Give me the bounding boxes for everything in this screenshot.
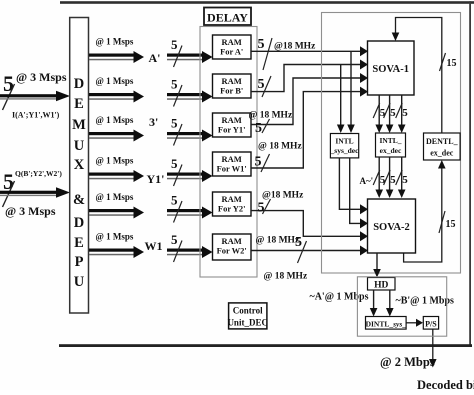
svg-text:Decoded bits: Decoded bits: [417, 378, 474, 390]
block INTL_ex_dec: [376, 133, 406, 157]
SOVA region container box: [322, 13, 461, 274]
bus arrow into RAM row 4: [167, 173, 203, 176]
svg-text:X: X: [74, 157, 85, 173]
wire feedback DEINTL_ex_dec to SOVA-1 top: [396, 18, 442, 134]
svg-text:3': 3': [149, 115, 158, 129]
svg-text:M: M: [72, 117, 86, 133]
bus slash (row 1): [174, 46, 183, 68]
bus arrow into RAM row 5: [167, 209, 203, 212]
svg-text:15: 15: [446, 219, 456, 230]
svg-text:Q(B';Y2',W2'): Q(B';Y2',W2'): [15, 169, 62, 178]
svg-text:5: 5: [380, 107, 386, 119]
bus arrow into RAM row 1: [167, 54, 203, 57]
output stage container box: [357, 277, 446, 336]
wire INTL_ex_dec output 1 to SOVA-2: [378, 157, 380, 192]
wire INTL_ex_dec output 2 to SOVA-2: [389, 157, 391, 192]
wire drop line2 to INTL_sys_dec: [340, 65, 342, 127]
svg-text:5: 5: [171, 116, 178, 131]
bus arrow into RAM row 3: [167, 132, 203, 135]
bus width 15 slash (riser): [439, 211, 445, 233]
svg-text:5: 5: [402, 174, 408, 186]
demux output arrow row 1: [89, 54, 135, 57]
svg-text:INTL: INTL: [335, 137, 353, 146]
svg-text:U: U: [74, 138, 85, 154]
svg-text:DENTL_: DENTL_: [426, 137, 459, 146]
svg-text:D: D: [74, 215, 84, 231]
figure bottom border: [59, 344, 472, 347]
RAM block 1 (For A'): [213, 35, 252, 59]
svg-text:@ 1 Msps: @ 1 Msps: [96, 37, 134, 47]
wire SOVA-2 to HD: [376, 253, 378, 271]
svg-text:5: 5: [258, 77, 265, 92]
block DEMUX & DEPU: [70, 18, 89, 314]
svg-text:5: 5: [171, 193, 178, 208]
demux output arrow row 5: [89, 209, 135, 212]
wire RAM Y1' to SOVA-1 in3: [251, 78, 362, 125]
svg-text:Y1': Y1': [147, 172, 165, 186]
wire RAM B' to SOVA-1 in2: [251, 65, 362, 92]
svg-text:W1: W1: [145, 239, 163, 253]
wire HD to DEINTL_sys (right): [389, 290, 391, 311]
svg-text:@ 1 Msps: @ 1 Msps: [96, 192, 134, 202]
svg-text:RAM: RAM: [222, 76, 242, 86]
bus width 5 slash (SOVA-1 out 3): [396, 103, 403, 118]
bus slash (row 6): [174, 241, 183, 263]
svg-text:For W2': For W2': [217, 246, 247, 256]
svg-text:P/S: P/S: [425, 319, 437, 328]
bus slash (row 2): [174, 85, 183, 107]
wire DEINTL_sys to P/S: [406, 322, 416, 324]
bus width 5 slash (INTL_ex out 3): [396, 170, 403, 185]
RAM block 2 (For B'): [213, 74, 252, 98]
bus width 5 slash (INTL_ex out 2): [384, 170, 391, 185]
input arrow I to DEMUX: [0, 94, 57, 97]
svg-text:~B'@ 1 Mbps: ~B'@ 1 Mbps: [396, 296, 455, 307]
svg-text:_sys_dec: _sys_dec: [330, 146, 360, 155]
input bus I slash: [3, 84, 15, 110]
svg-text:E: E: [74, 235, 84, 251]
block DEINTL_ex_dec: [424, 133, 461, 160]
svg-text:For A': For A': [220, 47, 243, 57]
wire RAM Y2' to SOVA-2 in3: [251, 211, 362, 237]
svg-text:HD: HD: [374, 281, 388, 291]
svg-text:@ 18 MHz: @ 18 MHz: [249, 111, 293, 121]
wire HD to DEINTL_sys (left): [373, 290, 375, 311]
wire SOVA-1 output 1 to INTL_ex_dec: [378, 95, 380, 127]
svg-text:SOVA-2: SOVA-2: [373, 222, 410, 233]
wire RAM W1' to SOVA-1 in4: [251, 92, 362, 168]
bus arrow into RAM row 2: [167, 93, 203, 96]
wire INTL_sys_dec to SOVA-2 in1: [339, 158, 361, 209]
demux output arrow row 4: [89, 173, 135, 176]
bus slash (row 4): [174, 165, 183, 187]
svg-text:5: 5: [295, 235, 302, 250]
svg-text:DINTL_sys_: DINTL_sys_: [366, 319, 407, 328]
RAM block 4 (For W1'): [213, 152, 252, 176]
block DEINTL_sys_: [366, 317, 407, 330]
svg-text:@ 18 MHz: @ 18 MHz: [258, 142, 302, 152]
RAM block 3 (For Y1'): [213, 113, 252, 137]
svg-text:ex_dec: ex_dec: [430, 149, 454, 158]
svg-text:SOVA-1: SOVA-1: [372, 64, 409, 75]
svg-text:@ 1 Msps: @ 1 Msps: [96, 115, 134, 125]
demux output arrow row 2: [89, 93, 135, 96]
svg-text:&: &: [73, 192, 85, 208]
bus slash (row 5): [174, 201, 183, 223]
svg-text:RAM: RAM: [222, 236, 242, 246]
svg-text:INTL_: INTL_: [379, 136, 401, 145]
svg-text:@ 2 Mbps: @ 2 Mbps: [380, 355, 435, 369]
block HD: [368, 278, 396, 291]
svg-text:For Y2': For Y2': [218, 204, 246, 214]
svg-text:RAM: RAM: [222, 115, 242, 125]
demux output arrow row 3: [89, 132, 135, 135]
block SOVA-2: [368, 199, 416, 253]
block Control Unit_DEC: [229, 303, 267, 329]
input bus Q slash: [3, 181, 15, 207]
svg-text:For Y1': For Y1': [218, 125, 246, 135]
svg-text:For B': For B': [220, 86, 243, 96]
svg-text:A': A': [149, 51, 161, 65]
wire drop line1 to INTL_sys_dec: [350, 51, 352, 126]
svg-text:I(A';Y1',W1'): I(A';Y1',W1'): [12, 111, 60, 120]
svg-text:@ 1 Msps: @ 1 Msps: [96, 156, 134, 166]
svg-text:E: E: [74, 96, 84, 112]
svg-text:5: 5: [255, 155, 262, 170]
wire SOVA-2 output to DEINTL_ex_dec: [404, 169, 442, 263]
svg-text:@ 3 Msps: @ 3 Msps: [16, 70, 67, 84]
svg-text:U: U: [74, 274, 85, 290]
svg-text:5: 5: [255, 121, 262, 136]
svg-text:5: 5: [402, 107, 408, 119]
svg-text:P: P: [75, 254, 84, 270]
bus width 5 slash (INTL_ex out 1): [373, 170, 380, 185]
svg-text:For W1': For W1': [217, 164, 247, 174]
svg-text:DELAY: DELAY: [207, 11, 248, 25]
svg-text:RAM: RAM: [222, 37, 242, 47]
demux output arrow row 6: [89, 249, 135, 252]
svg-text:@ 1 Msps: @ 1 Msps: [96, 232, 134, 242]
svg-text:5: 5: [171, 37, 178, 52]
block INTL_sys_dec: [330, 134, 358, 158]
DELAY container box: [200, 27, 257, 278]
figure top border: [60, 1, 474, 4]
svg-text:5: 5: [258, 37, 265, 52]
bus slash (row 3): [174, 124, 183, 146]
svg-text:5: 5: [171, 232, 178, 247]
svg-text:Control: Control: [233, 306, 263, 316]
svg-text:ex_dec: ex_dec: [380, 146, 402, 155]
svg-text:5: 5: [3, 169, 14, 194]
svg-text:5: 5: [171, 156, 178, 171]
block SOVA-1: [368, 41, 415, 95]
wire INTL_sys_dec to SOVA-2 in2: [350, 158, 362, 224]
wire SOVA-1 output 3 to INTL_ex_dec: [401, 95, 403, 127]
svg-text:5: 5: [390, 174, 396, 186]
bus width 5 slash (SOVA-1 out 1): [373, 103, 380, 118]
svg-text:@18 MHz: @18 MHz: [274, 42, 316, 52]
svg-text:@18 MHz: @18 MHz: [262, 191, 304, 201]
svg-text:Unit_DEC: Unit_DEC: [227, 318, 268, 328]
svg-text:5: 5: [171, 77, 178, 92]
svg-text:15: 15: [447, 58, 457, 69]
svg-text:5: 5: [380, 174, 386, 186]
svg-text:@ 3 Msps: @ 3 Msps: [5, 204, 56, 218]
wire RAM A' to SOVA-1 in1: [251, 50, 362, 52]
svg-text:5: 5: [390, 107, 396, 119]
svg-text:RAM: RAM: [222, 194, 242, 204]
svg-text:A~': A~': [360, 176, 374, 186]
bus width 15 slash (feedback top): [440, 53, 446, 71]
wire P/S output down: [432, 329, 434, 359]
svg-text:@ 18 MHz: @ 18 MHz: [256, 236, 300, 246]
input arrow Q to DEMUX: [0, 191, 57, 194]
svg-text:D: D: [74, 76, 84, 92]
bus arrow into RAM row 6: [167, 249, 203, 252]
svg-text:RAM: RAM: [222, 154, 242, 164]
RAM block 6 (For W2'): [213, 234, 252, 260]
bus width 5 slash (SOVA-1 out 2): [384, 103, 391, 118]
wire RAM W2' to SOVA-2 in4: [251, 250, 362, 252]
svg-text:@ 1 Msps: @ 1 Msps: [96, 76, 134, 86]
block P/S: [423, 317, 438, 330]
svg-text:@ 18 MHz: @ 18 MHz: [264, 272, 308, 282]
figure right border: [469, 1, 471, 346]
wire SOVA-1 output 2 to INTL_ex_dec: [389, 95, 391, 127]
RAM block 5 (For Y2'): [213, 192, 252, 216]
svg-text:5: 5: [3, 71, 14, 96]
DELAY label box: [204, 8, 251, 26]
svg-text:~A'@ 1 Mbps: ~A'@ 1 Mbps: [310, 292, 369, 303]
wire INTL_ex_dec output 3 to SOVA-2: [401, 157, 403, 192]
